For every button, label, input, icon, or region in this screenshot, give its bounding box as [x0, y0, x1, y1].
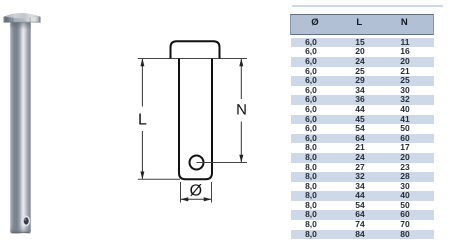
head base extension line: [138, 58, 247, 60]
pin hole (photo): [21, 216, 30, 227]
drawing: hole circle: [190, 156, 204, 170]
drawing: pin shaft outline: [179, 59, 212, 180]
diameter dimension line: [181, 198, 212, 200]
diameter arrowheads: [181, 197, 212, 201]
table header: [290, 14, 435, 34]
dimension N line: [240, 59, 242, 163]
pin shaft (photo): [10, 23, 31, 234]
drawing: pin head outline: [171, 41, 220, 58]
svg-text:L: L: [138, 112, 147, 129]
diameter extension lines: [181, 182, 212, 203]
table rows: [291, 38, 434, 239]
dimension L line: [141, 59, 143, 180]
dimension N arrowheads: [239, 59, 243, 163]
dimension L arrowheads: [140, 59, 144, 180]
table top strip: [292, 5, 443, 8]
bottom extension line: [138, 178, 180, 180]
hole center extension line: [197, 162, 248, 164]
pin head (photo): [4, 13, 41, 23]
svg-text:N: N: [236, 101, 247, 118]
svg-text:Ø: Ø: [190, 183, 202, 200]
